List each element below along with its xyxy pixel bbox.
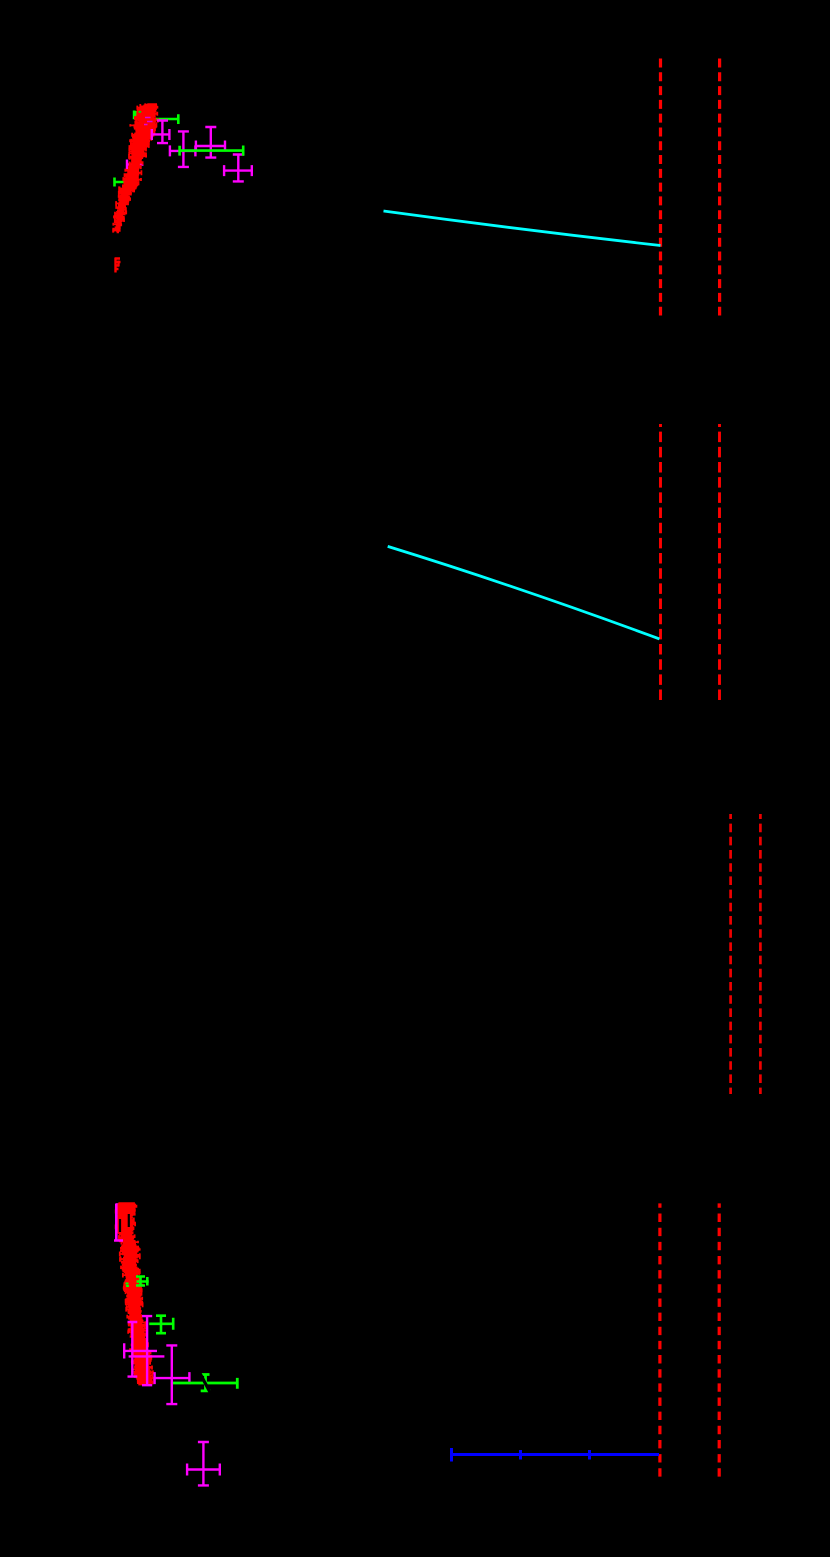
magenta error-bar cross B1, panel 4 bbox=[123, 1321, 157, 1378]
green horizontal error bar D (under red), panel 1 bbox=[114, 178, 127, 187]
red dashed vertical line, panel 2 left break marker bbox=[659, 424, 662, 705]
magenta error-bar cross B3, panel 4 bbox=[154, 1344, 191, 1405]
red dashed vertical line, panel 3 right break marker bbox=[759, 814, 762, 1094]
red dashed vertical line, panel 2 right break marker bbox=[718, 424, 721, 705]
black diagonal stripe crossing green marker, panel 4 bbox=[199, 1372, 212, 1396]
red dashed vertical line, panel 4 left break marker bbox=[658, 1203, 661, 1482]
red dashed vertical line, panel 1 right break marker bbox=[718, 59, 721, 316]
magenta error-bar cross 1, panel 1 bbox=[151, 120, 171, 145]
magenta bracket top serif (under red), panel 4 bbox=[116, 1203, 123, 1206]
cyan model light-curve, panel 2 bbox=[388, 546, 660, 639]
magenta error-bar cross hidden under red cluster, panel 1 bbox=[141, 113, 156, 129]
green long horizontal error bar G3 with central marker, panel 4 bbox=[173, 1374, 239, 1393]
magenta error-bar cross 2, panel 1 bbox=[169, 130, 197, 168]
red dashed vertical line, panel 1 left break marker bbox=[659, 59, 662, 316]
magenta horizontal error bar partly under red cluster, panel 1 bbox=[126, 158, 144, 171]
magenta specks showing through red cluster top, panel 1 bbox=[144, 118, 153, 125]
red XRT data cluster (dense points with error bars), panel 4 bbox=[116, 1204, 154, 1385]
magenta error-bar cross 4, panel 1 bbox=[223, 154, 253, 183]
black gaps between red marker columns, panel 4 bbox=[120, 1214, 129, 1232]
red XRT data cluster (dense points with error bars), panel 1 bbox=[113, 103, 158, 232]
magenta error-bar cross B2, panel 4 bbox=[129, 1315, 165, 1386]
green speck showing through red cluster top, panel 1 bbox=[139, 111, 142, 113]
cyan model light-curve, panel 1 bbox=[384, 211, 661, 246]
blue horizontal limit bar with ticks, panel 4 bbox=[450, 1448, 659, 1462]
green small error-bar cross G1 (visible part), panel 4 bbox=[136, 1276, 149, 1287]
green horizontal error bar B, panel 1 bbox=[152, 114, 180, 124]
red dashed vertical line, panel 3 left break marker bbox=[729, 814, 732, 1094]
magenta error-bar cross 3, panel 1 bbox=[195, 126, 226, 159]
magenta vertical bracket error bar (visible part), panel 4 bbox=[114, 1204, 123, 1242]
green error-bar cross G2, panel 4 bbox=[149, 1315, 174, 1335]
red detached data clump below cluster, panel 1 bbox=[115, 258, 121, 273]
green horizontal error bar A (under red), panel 1 bbox=[133, 111, 154, 120]
magenta isolated error-bar cross B4, panel 4 bbox=[186, 1441, 221, 1486]
green long horizontal error bar C, panel 1 bbox=[179, 146, 245, 156]
red dashed vertical line, panel 4 right break marker bbox=[718, 1203, 721, 1482]
green specks of G1 showing left of red, panel 4 bbox=[126, 1284, 130, 1287]
